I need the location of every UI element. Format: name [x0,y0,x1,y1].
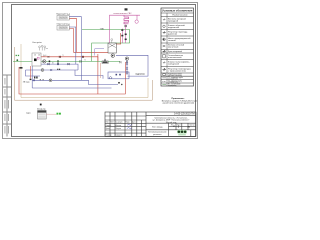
svg-text:Узел ввода: Узел ввода [152,126,164,128]
diamond on drain box [109,77,112,79]
svg-text:проходной: проходной [168,20,178,23]
svg-text:сетевой: сетевой [168,39,176,42]
return pipe blue lines [26,17,149,88]
extra small valves near x48 [48,56,50,58]
svg-text:магнитный: магнитный [168,46,178,49]
valves on blue main [48,63,70,65]
svg-text:Сидоров: Сидоров [115,135,122,137]
boundary box inner (tan) [21,44,148,98]
pink element in box [37,57,39,59]
valve on bottom blue [33,79,35,81]
svg-text:Ду50: Ду50 [43,55,47,57]
svg-text:водопровод: водопровод [168,85,176,87]
svg-text:Подп.: Подп. [125,122,130,124]
pump on circulation line [41,69,44,72]
cold water green lines [13,30,130,62]
project description [153,117,191,124]
DHW coil [124,17,129,24]
svg-text:Лист: Лист [110,122,114,124]
note text [162,98,197,105]
bottom left cell text [148,132,168,137]
red drop from meter box [30,66,32,79]
indicator lights [57,113,59,115]
svg-text:Обратный тр-д: Обратный тр-д [56,23,70,26]
tiny pipe tags [43,55,86,65]
svg-text:Условные обозначения: Условные обозначения [162,9,193,13]
svg-text:с термоэлементом: с термоэлементом [168,71,186,73]
outer page border [3,3,198,139]
bypass violet stub [95,49,104,56]
valve on circulation line [50,69,52,71]
svg-text:подкл.: подкл. [26,113,32,115]
valves on coil drop [121,25,127,40]
drain mark [20,67,23,69]
cable to indicators [46,113,56,115]
svg-text:Листов: Листов [189,125,194,127]
svg-text:давления: давления [168,34,177,36]
small taps in box [34,54,40,56]
svg-text:Пров.: Пров. [105,128,110,130]
лит/лист/листов labels [171,125,195,127]
inner drawing frame [12,5,196,137]
title block small header texts [105,121,135,137]
pump on green line [43,60,46,63]
marks inside drain box [116,74,118,76]
svg-text:расчётного отопления (давление: расчётного отопления (давление) [163,103,195,105]
svg-text:пластинчатый: пластинчатый [168,56,181,59]
supply pipe T1 red lines [19,18,125,94]
svg-text:решения: решения [153,134,161,136]
DHW magenta lines [110,15,141,43]
svg-text:Т2: Т2 [84,60,86,62]
svg-text:ХВ подп.: ХВ подп. [23,81,30,83]
svg-text:Наименование: Наименование [172,15,188,17]
left margin stamp cells [3,75,11,136]
svg-text:Жилой дом: Жилой дом [166,121,177,124]
svg-text:подъемный: подъемный [168,26,179,29]
svg-text:Петров: Петров [115,128,121,130]
svg-text:В1: В1 [52,62,54,64]
legend row names [168,17,191,87]
svg-text:Т1: Т1 [62,55,64,57]
salmon drain riser [100,63,102,78]
valves on red main [59,56,84,58]
svg-text:Подающий тр-д: Подающий тр-д [56,13,71,16]
DHW pump [125,57,128,60]
control cabinet [38,111,47,120]
svg-text:Н.контр.: Н.контр. [105,135,112,137]
svg-text:Дата: Дата [132,122,136,124]
cabinet top dot [40,104,42,106]
legend symbols column [162,19,166,85]
air vent mark [125,8,128,10]
junction on bottom blue [118,82,122,85]
circulation pump [111,54,115,58]
controller label box [102,61,108,64]
valves on green main [57,60,82,62]
svg-text:Узел учёта: Узел учёта [32,42,42,44]
green logo [177,130,187,134]
cold water entry labels [16,55,17,56]
svg-text:подпитка: подпитка [135,74,145,76]
gauge above exchanger [111,39,113,43]
circulation pump on bottom blue [49,79,52,82]
svg-text:Разраб.: Разраб. [105,125,112,127]
heat exchanger unit [108,43,116,53]
svg-text:Иванов: Иванов [115,125,121,127]
svg-text:14-05-125-2015-ТМ: 14-05-125-2015-ТМ [174,114,195,116]
svg-text:Шкаф упр.: Шкаф упр. [37,107,46,110]
DHW riser with valves [126,60,128,75]
drain marks on sub-loop [34,77,35,79]
backflow preventer [16,59,18,61]
heat source block 2 [57,26,69,31]
svg-text:теплоноситель ГВС: теплоноситель ГВС [113,13,132,15]
boundary box outer (brown) [15,47,153,100]
title block grid [105,112,196,136]
metering unit box [32,53,41,66]
signatures (blue) [127,124,132,128]
heat source block 1 [57,16,69,21]
svg-text:Т3В1: Т3В1 [100,28,104,30]
valve row under exchanger [104,59,128,64]
svg-text:Кран шаровый: Кран шаровый [168,50,182,53]
svg-text:ный ручной: ный ручной [168,63,179,66]
svg-text:системы отопления: системы отопления [168,75,182,77]
instruments above metering unit [39,45,48,50]
expansion tank circle [135,20,138,23]
heat meter black display [34,59,37,62]
legend table frame [161,8,194,86]
left margin rotated text marks [5,78,9,134]
svg-text:№ докум.: № докум. [115,121,123,124]
